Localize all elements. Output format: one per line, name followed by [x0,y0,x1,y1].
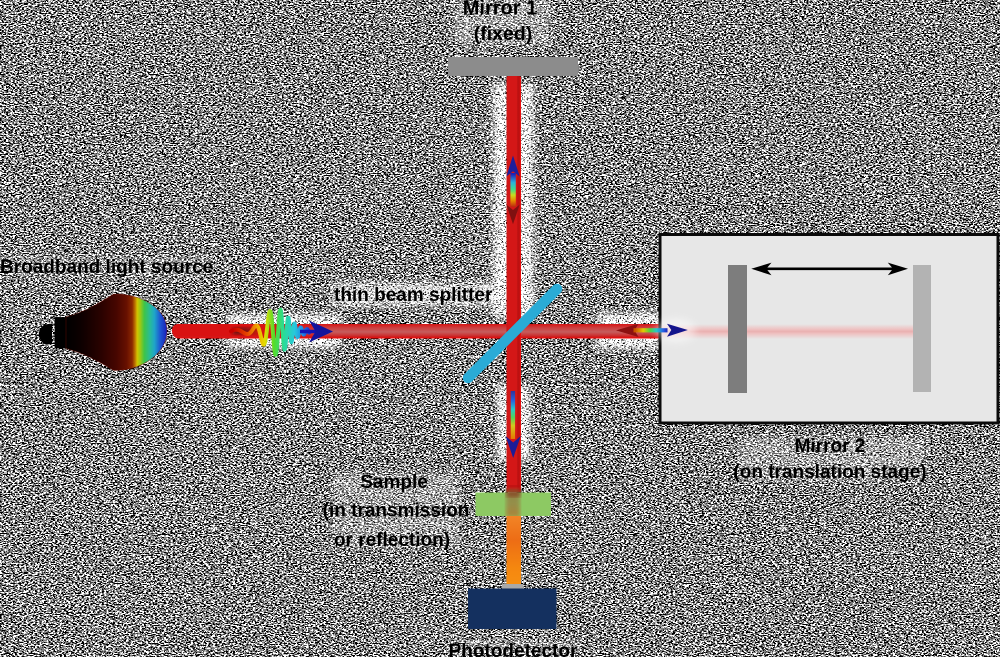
beam splitter [468,289,557,378]
svg-text:Sample: Sample [360,472,428,493]
svg-text:Mirror 2: Mirror 2 [795,436,866,457]
light bulb body [66,294,167,371]
halo glow along mirror-1 arm [493,84,534,318]
svg-text:(in transmission: (in transmission [323,501,470,522]
sample green slab [476,490,552,517]
svg-text:thin beam splitter: thin beam splitter [334,285,493,306]
horizontal red beam [172,324,662,339]
faint beam inside box [662,324,913,339]
halo behind broadband label [2,256,210,276]
svg-text:Mirror 1: Mirror 1 [463,0,537,20]
mirror 1 bar [448,57,578,76]
orange beam to detector [507,516,522,585]
down arrow pulse on detector arm [506,391,521,458]
light bulb base [39,317,67,348]
sample label [323,472,470,551]
up arrow pulse on mirror-1 arm [506,156,519,225]
svg-text:Broadband light source: Broadband light source [0,257,213,278]
pulse arrows at box entrance [616,319,696,343]
halo around detector-arm arrow [497,385,531,461]
halo behind sample label [332,473,460,547]
mirror 2 light bar (right) [913,265,931,392]
halo behind beam splitter label [332,283,504,306]
halo around input wave packet [227,314,341,348]
mirror 1 label [463,0,537,45]
halo behind mirror2 label [737,437,925,480]
mirror 2 label [733,436,926,483]
svg-text:(fixed): (fixed) [474,23,533,45]
wave packet on input beam [231,310,333,355]
svg-text:(on translation stage): (on translation stage) [733,462,926,483]
halo behind photodetector label [450,641,578,657]
vertical red beam [507,76,522,492]
mirror 2 dark bar (left) [728,265,747,393]
halo around stage entry arrows [597,313,661,349]
photodetector body [468,589,557,630]
svg-text:or reflection): or reflection) [334,530,450,551]
translation stage box [660,235,998,424]
svg-text:Photodetector: Photodetector [449,641,578,657]
halo behind mirror1 label [455,0,550,45]
detector connector [502,584,524,589]
translation double arrow [751,263,908,276]
